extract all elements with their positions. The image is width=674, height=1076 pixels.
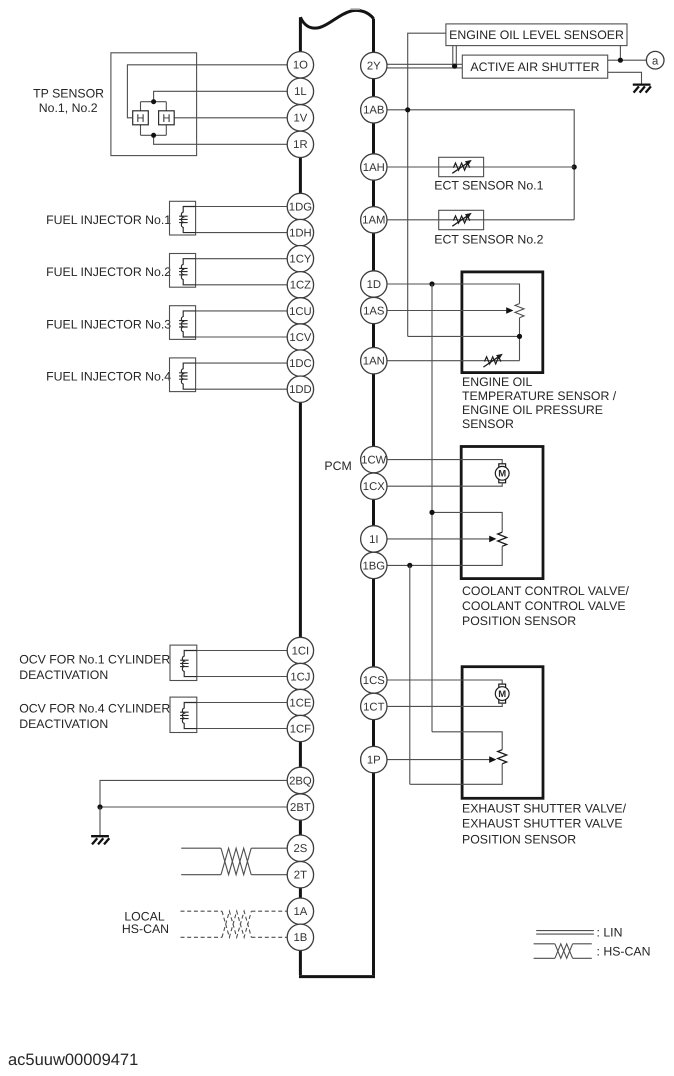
svg-text:H: H [136, 113, 144, 125]
pin 1CV [287, 324, 313, 350]
svg-text:COOLANT CONTROL VALVE/: COOLANT CONTROL VALVE/ [462, 584, 630, 598]
fuel injector No.3 solenoid coil [179, 311, 196, 337]
svg-text:FUEL INJECTOR No.1: FUEL INJECTOR No.1 [46, 213, 171, 227]
svg-text:PCM: PCM [324, 459, 351, 473]
svg-text:1CW: 1CW [361, 455, 386, 467]
svg-text:1CT: 1CT [363, 701, 384, 713]
wire exhaust motor to pin 1CT [374, 703, 502, 706]
wire pins 1DC 1DD to injector 4 [196, 363, 301, 389]
svg-text:TEMPERATURE SENSOR /: TEMPERATURE SENSOR / [462, 389, 617, 403]
thermistor symbol ECT No.1 [452, 161, 471, 174]
svg-text:1CF: 1CF [290, 723, 311, 735]
wire pin 1O to hall element 1 [127, 65, 300, 118]
twisted pair crossing lines 2S 2T [221, 848, 251, 875]
pin 1R [287, 131, 313, 157]
node junction dot [618, 58, 623, 63]
node junction dot LIN branch [452, 64, 457, 69]
node junction dot bottom rail [151, 133, 156, 138]
arrow wiper head 1I [489, 536, 496, 543]
pin 1P [361, 746, 387, 772]
pin 2T [287, 862, 313, 888]
svg-text:2BT: 2BT [290, 802, 311, 814]
wire node horizontal to resistor bottom [408, 335, 520, 337]
wire dashed twisted pair lower lead 1B [181, 936, 301, 938]
svg-text:1CY: 1CY [289, 254, 311, 266]
pin 2Y [361, 52, 387, 78]
SECTION: tp sensor [33, 53, 300, 156]
svg-text:ECT SENSOR No.1: ECT SENSOR No.1 [434, 179, 543, 193]
node junction dot 1D branch [429, 281, 434, 286]
svg-text:1CZ: 1CZ [290, 280, 311, 292]
pin 1AB [361, 97, 387, 123]
ground chassis symbol bottom left [91, 836, 109, 844]
wire pins 1CI 1CJ to OCV 1 [197, 651, 301, 677]
svg-text:No.1, No.2: No.1, No.2 [39, 101, 98, 115]
SECTION: PCM bus [299, 9, 375, 976]
svg-text:1B: 1B [293, 932, 307, 944]
wire coolant resistor bottom to pin 1BG [374, 546, 502, 565]
svg-text:EXHAUST SHUTTER VALVE: EXHAUST SHUTTER VALVE [462, 816, 623, 830]
svg-text:COOLANT CONTROL VALVE: COOLANT CONTROL VALVE [462, 599, 626, 613]
wire PCM top torn-edge squiggle [300, 10, 373, 28]
OCV No.4 box [170, 697, 197, 732]
wire dashed twisted pair upper lead 1A [181, 910, 301, 912]
box ENGINE OIL TEMPERATURE / PRESSURE SENSOR [462, 272, 543, 373]
legend HS-CAN twisted pair symbol [534, 944, 592, 959]
pin 1CI [287, 637, 313, 663]
fuel injector No.1 solenoid coil [179, 207, 196, 233]
motor M exhaust shutter valve [495, 684, 509, 703]
wire engine oil level sensor right edge down [619, 46, 621, 61]
wire pin 1P wiper [374, 759, 491, 761]
svg-text:FUEL INJECTOR No.2: FUEL INJECTOR No.2 [46, 265, 171, 279]
SECTION: ect and oil [324, 272, 616, 732]
svg-text:ECT SENSOR No.2: ECT SENSOR No.2 [434, 233, 543, 247]
wire pin 1AS wiper [374, 310, 508, 312]
svg-text:POSITION SENSOR: POSITION SENSOR [462, 614, 576, 628]
svg-text:DEACTIVATION: DEACTIVATION [19, 717, 108, 731]
pin 1BG [361, 552, 387, 578]
wire pin 1AB to right vertical [374, 110, 574, 220]
box ECT SENSOR No.2 [439, 210, 484, 229]
svg-text:1L: 1L [294, 86, 307, 98]
wire down to chassis ground [99, 807, 101, 835]
wire PCM right bus vertical [372, 19, 375, 976]
wire twisted pair HS-CAN lower lead 2T [181, 874, 300, 876]
svg-text:2Y: 2Y [367, 60, 381, 72]
wire pin 1L to bridge top rail [154, 91, 301, 101]
OCV No.1 solenoid coil [180, 651, 197, 677]
svg-text:a: a [652, 55, 659, 67]
svg-text:HS-CAN: HS-CAN [122, 922, 169, 936]
arrow wiper head 1P [489, 756, 496, 763]
svg-text:1DH: 1DH [289, 228, 312, 240]
svg-text:M: M [498, 469, 506, 480]
svg-text:1CJ: 1CJ [290, 671, 310, 683]
wire gray tick above squiggle [351, 8, 361, 10]
wire active air shutter to terminal a [608, 59, 647, 61]
wire branch vertical to lower valves [431, 284, 433, 732]
pin 1DC [287, 350, 313, 376]
pin 1CE [287, 689, 313, 715]
svg-text:1D: 1D [367, 279, 381, 291]
svg-text:1I: 1I [369, 534, 378, 546]
pin 1CS [361, 667, 387, 693]
pin 1DH [287, 219, 313, 245]
pin 2BT [287, 794, 313, 820]
pin 1D [361, 271, 387, 297]
pin 1AS [361, 297, 387, 323]
legend LIN double line symbol [536, 931, 594, 935]
svg-text:2BQ: 2BQ [289, 775, 312, 787]
svg-text:ENGINE OIL: ENGINE OIL [462, 375, 533, 389]
svg-text:TP SENSOR: TP SENSOR [33, 87, 104, 101]
pin 2S [287, 835, 313, 861]
svg-text:ACTIVE AIR SHUTTER: ACTIVE AIR SHUTTER [470, 60, 599, 74]
pin 1DD [287, 376, 313, 402]
wire branch to exhaust position sensor resistor top [432, 732, 502, 750]
pin 1B [287, 924, 313, 950]
svg-text:1P: 1P [367, 755, 381, 767]
motor M coolant control valve [495, 464, 509, 483]
svg-text:H: H [162, 113, 170, 125]
svg-text:: HS-CAN: : HS-CAN [597, 945, 651, 959]
node junction dot ground branch [97, 804, 102, 809]
svg-text:1AS: 1AS [363, 305, 385, 317]
wire bridge risers [141, 102, 167, 136]
box ENGINE OIL LEVEL SENSOER [446, 24, 627, 46]
wire pins 1CY 1CZ to injector 2 [196, 259, 301, 285]
pin 1CX [361, 473, 387, 499]
dashed twisted pair crossing lines 1A 1B [222, 911, 251, 937]
wire bridge top rail [141, 101, 167, 103]
pin 1DG [287, 193, 313, 219]
wire pin 1CS to exhaust motor [374, 680, 502, 684]
node junction dot top rail [151, 99, 156, 104]
node junction dot 1AB branch [405, 107, 410, 112]
pin 1V [287, 105, 313, 131]
pin 1AM [361, 207, 387, 233]
wire LIN bus lower line from pin 2Y [374, 67, 463, 69]
fuel injector No.2 box [170, 254, 196, 288]
hall element H No.1 [133, 111, 149, 125]
pin 1CU [287, 298, 313, 324]
OCV No.1 box [170, 645, 197, 680]
box TP sensor outline [111, 53, 197, 156]
fuel injector No.4 box [170, 358, 196, 392]
svg-text:1CX: 1CX [363, 481, 385, 493]
SECTION: legend [8, 926, 650, 1070]
pin 1AH [361, 154, 387, 180]
wire pins 1CE 1CF to OCV 4 [197, 703, 301, 729]
OCV No.4 solenoid coil [180, 703, 197, 729]
svg-text:1R: 1R [293, 139, 307, 151]
wire pin 1D to pressure sensor resistor top [374, 284, 520, 304]
wire active air shutter to ground [608, 72, 642, 84]
SECTION: top right [374, 24, 664, 337]
resistor pressure sensor zigzag [515, 304, 524, 318]
svg-text:ENGINE OIL LEVEL SENSOER: ENGINE OIL LEVEL SENSOER [449, 28, 624, 42]
pin 1CJ [287, 663, 313, 689]
wire pin 1R to bridge bottom rail [154, 135, 301, 144]
wire PCM bottom bus horizontal [299, 975, 375, 978]
svg-text:2T: 2T [294, 870, 307, 882]
svg-text:OCV FOR No.4 CYLINDER: OCV FOR No.4 CYLINDER [19, 702, 170, 716]
fuel injector No.1 box [170, 201, 196, 235]
wire pin 1AN to oil temp thermistor [374, 360, 520, 362]
wire exhaust resistor bottom [410, 764, 502, 785]
svg-text:1CU: 1CU [289, 306, 312, 318]
wire pressure sensor resistor bottom [519, 318, 521, 361]
wire pins 1CU 1CV to injector 3 [196, 311, 301, 337]
svg-text:1A: 1A [293, 906, 307, 918]
pin 1O [287, 52, 313, 78]
box ECT SENSOR No.1 [439, 157, 484, 176]
wire pin 1I wiper [374, 538, 491, 540]
svg-text:1AN: 1AN [363, 356, 385, 368]
pin 1AN [361, 348, 387, 374]
thermistor symbol ECT No.2 [452, 213, 471, 226]
node junction dot resistor bottom [517, 334, 522, 339]
SECTION: coolant exhaust [374, 447, 630, 847]
node junction dot coolant branch [429, 510, 434, 515]
terminal a circle [646, 51, 664, 69]
svg-text:1DC: 1DC [289, 358, 312, 370]
svg-text:OCV FOR No.1 CYLINDER: OCV FOR No.1 CYLINDER [19, 652, 170, 666]
pin 1CZ [287, 272, 313, 298]
svg-text:1AM: 1AM [362, 215, 385, 227]
svg-text:1CI: 1CI [292, 645, 310, 657]
pin 1I [361, 526, 387, 552]
svg-text:1CS: 1CS [363, 675, 385, 687]
pin 1CT [361, 693, 387, 719]
svg-text:1DD: 1DD [289, 384, 312, 396]
wire twisted pair HS-CAN upper lead 2S [181, 847, 300, 849]
resistor coolant position sensor zigzag [498, 532, 507, 546]
wire pin 1AM through ECT sensor No.2 [374, 219, 574, 221]
svg-text:1AB: 1AB [363, 105, 384, 117]
svg-text:: LIN: : LIN [597, 926, 623, 940]
wire LIN branch vertical double line to engine oil level sensor [453, 46, 457, 66]
svg-text:1AH: 1AH [363, 162, 385, 174]
wire from node to engine oil level sensor left edge [408, 33, 446, 336]
wire pins 1DG 1DH to injector 1 [196, 207, 301, 233]
pin 1L [287, 78, 313, 104]
pin 1CY [287, 246, 313, 272]
svg-text:ENGINE OIL PRESSURE: ENGINE OIL PRESSURE [462, 403, 603, 417]
svg-text:1DG: 1DG [289, 201, 312, 213]
wire PCM left bus vertical [299, 17, 302, 975]
svg-text:SENSOR: SENSOR [462, 417, 514, 431]
pin 1A [287, 898, 313, 924]
wire branch to coolant position sensor resistor top [432, 512, 502, 532]
hall element H No.2 [159, 111, 175, 125]
svg-text:FUEL INJECTOR No.4: FUEL INJECTOR No.4 [46, 370, 171, 384]
fuel injector No.3 box [170, 306, 196, 340]
thermistor symbol engine oil temp [483, 354, 502, 367]
node junction dot 1BG branch [407, 563, 412, 568]
svg-text:1V: 1V [293, 113, 307, 125]
wire bridge bottom rail [141, 134, 167, 136]
svg-text:DEACTIVATION: DEACTIVATION [19, 668, 108, 682]
node junction dot ECT1 [572, 164, 577, 169]
wire pin 2BQ to ground branch [100, 780, 300, 807]
SECTION: bottom left [91, 780, 300, 937]
svg-text:EXHAUST SHUTTER VALVE/: EXHAUST SHUTTER VALVE/ [462, 801, 627, 815]
fuel injector No.2 solenoid coil [179, 259, 196, 285]
svg-text:2S: 2S [293, 843, 307, 855]
SECTION: circles [287, 52, 387, 951]
box ACTIVE AIR SHUTTER [462, 55, 607, 78]
svg-text:POSITION SENSOR: POSITION SENSOR [462, 832, 576, 846]
wire coolant motor to pin 1CX [374, 483, 502, 486]
wire pin 2BT to ground branch [100, 806, 300, 808]
svg-text:FUEL INJECTOR No.3: FUEL INJECTOR No.3 [46, 317, 171, 331]
wire LIN bus upper line from pin 2Y [374, 63, 463, 65]
pin 1CW [361, 446, 387, 472]
pin 2BQ [287, 767, 313, 793]
wire pin 1CW to coolant motor [374, 460, 502, 464]
wire pin 1AH through ECT sensor No.1 [374, 166, 574, 168]
arrow wiper head 1AS [506, 307, 513, 314]
fuel injector No.4 solenoid coil [179, 363, 196, 389]
wire pin 1V to hall element 2 [174, 117, 300, 119]
pin 1CF [287, 715, 313, 741]
svg-text:1CV: 1CV [289, 332, 311, 344]
svg-text:1CE: 1CE [289, 697, 311, 709]
box EXHAUST SHUTTER VALVE [462, 667, 543, 799]
svg-text:1BG: 1BG [362, 560, 385, 572]
ground chassis symbol top right [633, 85, 651, 93]
wire branch vertical 1BG to exhaust [409, 565, 411, 784]
box COOLANT CONTROL VALVE [461, 447, 543, 579]
svg-text:1O: 1O [293, 60, 308, 72]
svg-text:ac5uuw00009471: ac5uuw00009471 [8, 1051, 138, 1069]
svg-text:M: M [498, 689, 506, 700]
resistor exhaust position sensor zigzag [498, 750, 507, 764]
